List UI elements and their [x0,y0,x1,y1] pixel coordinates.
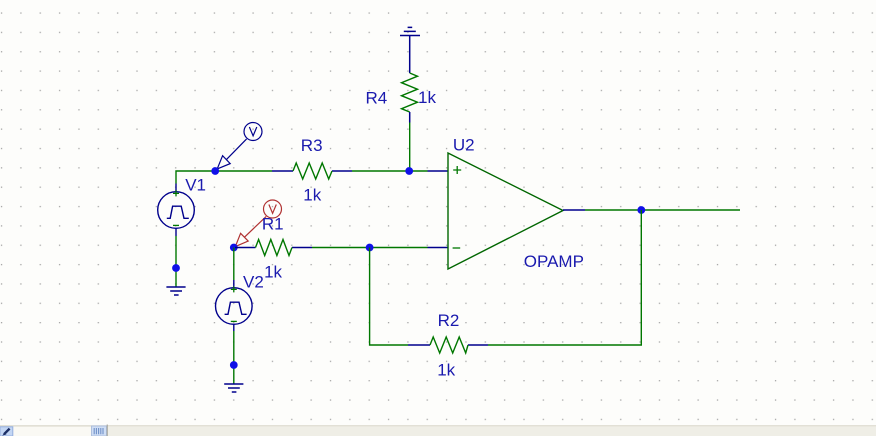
wire R3 to op-amp [352,170,428,172]
ground GND2 under V1 [166,287,185,295]
op-amp U2 [448,153,563,269]
pin V2 minus lead [233,324,235,331]
resistor R4 [402,73,418,123]
resistor R2 [408,337,488,353]
pin U2 minus input [428,247,449,249]
node V1-gnd junction [172,264,180,272]
pin V2 plus lead [233,280,235,288]
probe V letter 1 [249,127,256,136]
svg-text:V1: V1 [185,175,206,194]
svg-text:1k: 1k [264,263,282,282]
svg-text:1k: 1k [303,185,321,204]
svg-text:1k: 1k [437,361,455,380]
probe V marker 1 [217,123,262,169]
svg-text:R3: R3 [301,136,323,155]
node probe1 attach [211,167,219,175]
wire V2 bottom [233,331,235,384]
ground GND1 top [400,27,420,73]
node junction at R4/R3 [405,167,413,175]
resistor R1 [235,240,312,256]
wire feedback left vertical [370,248,408,346]
node minus input junction [366,244,374,252]
pin U2 plus input [428,170,449,172]
scrollbar grip button [92,425,108,437]
voltage source V1 [158,190,195,228]
wire V1 top [176,171,272,184]
node output junction [637,206,645,214]
svg-text:OPAMP: OPAMP [524,252,584,271]
svg-text:R4: R4 [366,88,388,107]
svg-text:V2: V2 [243,273,264,292]
wire R4 to node [409,123,411,172]
svg-text:R1: R1 [262,214,284,233]
wire V2 top [233,248,235,281]
ground GND3 under V2 [224,384,243,392]
svg-text:R2: R2 [438,311,460,330]
voltage source V2 [216,286,253,324]
scrollbar button left [0,427,13,436]
probe V letter 2 [269,205,276,214]
wire output [585,209,740,211]
node V2/R1 junction [230,244,238,252]
pin V1 plus lead [175,184,177,193]
svg-text:U2: U2 [453,135,475,154]
wire R1 to op-amp [312,247,428,249]
pin V1 minus lead [175,228,177,236]
status bar [0,426,876,437]
wire feedback right [488,210,641,345]
svg-text:1k: 1k [418,88,436,107]
resistor R3 [272,163,352,179]
pin U2 output [563,209,585,211]
node V2-gnd junction [230,361,238,369]
probe V marker 2 red [235,200,281,247]
wire V1 bottom [175,236,177,287]
